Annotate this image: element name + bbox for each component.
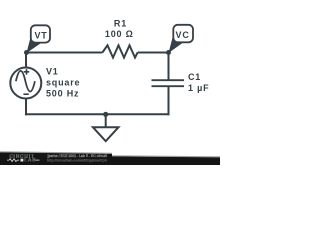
node ground junction [103, 112, 108, 117]
node VT junction [24, 50, 29, 55]
wire top right segment [138, 52, 169, 54]
svg-text:LAB: LAB [24, 158, 36, 164]
svg-text:C1: C1 [188, 72, 201, 82]
svg-text:500 Hz: 500 Hz [46, 89, 79, 99]
svg-text:100 Ω: 100 Ω [105, 29, 134, 39]
wire left vertical lower [25, 98, 27, 115]
node VC junction [166, 50, 171, 55]
value 1 uF [188, 83, 209, 93]
svg-text:jparns / ECE 2002 - Lab 5 - RC: jparns / ECE 2002 - Lab 5 - RC circuit [47, 154, 108, 158]
svg-text:VC: VC [176, 30, 190, 40]
value 100 ohm [105, 29, 134, 39]
wire bottom [25, 113, 170, 115]
svg-text:square: square [46, 78, 80, 88]
watermark title text [47, 154, 108, 158]
svg-text:VT: VT [34, 31, 47, 41]
capacitor C1 [152, 80, 185, 86]
svg-text:R1: R1 [114, 19, 127, 29]
watermark url text [47, 158, 107, 162]
wire left vertical upper [25, 52, 27, 69]
resistor R1 [102, 45, 137, 57]
wire right vertical lower [168, 86, 170, 115]
svg-text:http://circuitlab.com/c62hjq5d: http://circuitlab.com/c62hjq5dsd7ph [47, 158, 107, 162]
wire top left segment [26, 52, 102, 54]
watermark logo CircuitLab [7, 154, 40, 164]
flag VC pointer [169, 37, 184, 54]
svg-text:V1: V1 [46, 66, 59, 76]
label R1 [114, 19, 127, 29]
svg-text:1 µF: 1 µF [188, 83, 209, 93]
wire right vertical upper [168, 52, 170, 81]
watermark bar [0, 151, 220, 165]
flag VC [173, 25, 193, 43]
voltage source V1 [10, 68, 41, 99]
ground [93, 114, 119, 141]
label C1 [188, 72, 201, 82]
flag VT [31, 25, 50, 42]
flag VT pointer [27, 37, 42, 53]
label V1 [46, 66, 59, 76]
value square [46, 78, 80, 88]
value 500 Hz [46, 89, 79, 99]
